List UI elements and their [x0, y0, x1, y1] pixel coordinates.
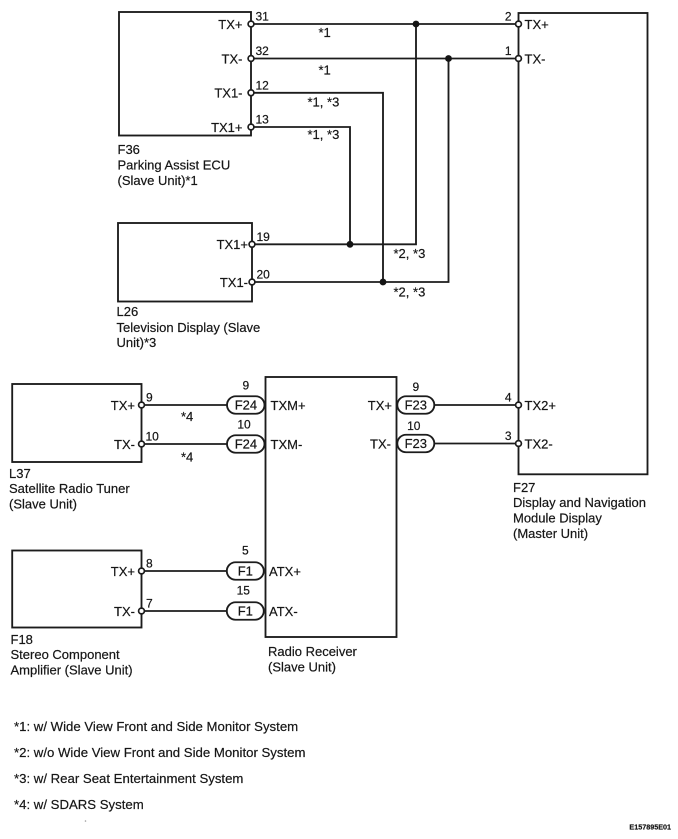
svg-text:*2, *3: *2, *3 — [394, 285, 426, 300]
svg-text:TX+: TX+ — [111, 564, 135, 579]
svg-text:8: 8 — [146, 557, 153, 571]
svg-text:TX+: TX+ — [525, 17, 549, 32]
svg-text:TX1+: TX1+ — [217, 237, 248, 252]
svg-text:Amplifier (Slave Unit): Amplifier (Slave Unit) — [11, 662, 133, 677]
svg-text:*4: w/ SDARS System: *4: w/ SDARS System — [14, 797, 144, 812]
svg-text:TX-: TX- — [222, 51, 243, 66]
svg-text:F23: F23 — [405, 398, 427, 413]
svg-text:*2: w/o Wide View Front and Si: *2: w/o Wide View Front and Side Monitor… — [14, 745, 305, 760]
svg-text:*3: w/ Rear Seat Entertainment: *3: w/ Rear Seat Entertainment System — [14, 771, 243, 786]
svg-text:*4: *4 — [181, 449, 193, 464]
svg-text:19: 19 — [257, 230, 271, 244]
svg-text:TX1-: TX1- — [214, 86, 242, 101]
svg-text:TX+: TX+ — [368, 398, 392, 413]
svg-text:10: 10 — [146, 430, 160, 444]
svg-text:TX1-: TX1- — [220, 275, 248, 290]
svg-text:ATX+: ATX+ — [269, 564, 301, 579]
svg-text:Television Display (Slave: Television Display (Slave — [117, 320, 261, 335]
svg-text:TX-: TX- — [114, 604, 135, 619]
svg-text:(Slave Unit): (Slave Unit) — [9, 496, 77, 511]
svg-text:F23: F23 — [405, 436, 427, 451]
svg-text:Unit)*3: Unit)*3 — [117, 335, 157, 350]
svg-text:*1: w/ Wide View Front and Sid: *1: w/ Wide View Front and Side Monitor … — [14, 719, 298, 734]
svg-text:*1, *3: *1, *3 — [308, 127, 340, 142]
svg-text:5: 5 — [242, 544, 249, 558]
svg-text:TX-: TX- — [370, 436, 391, 451]
svg-text:Satellite Radio Tuner: Satellite Radio Tuner — [9, 481, 130, 496]
svg-text:Radio Receiver: Radio Receiver — [268, 644, 358, 659]
svg-text:Parking Assist ECU: Parking Assist ECU — [118, 158, 231, 173]
svg-text:4: 4 — [505, 391, 512, 405]
svg-text:(Master Unit): (Master Unit) — [513, 526, 588, 541]
svg-text:12: 12 — [256, 78, 270, 92]
svg-text:*4: *4 — [181, 409, 193, 424]
svg-text:15: 15 — [237, 584, 251, 598]
svg-text:TX1+: TX1+ — [211, 120, 242, 135]
svg-text:7: 7 — [146, 597, 153, 611]
svg-text:9: 9 — [146, 391, 153, 405]
svg-text:*1: *1 — [319, 62, 331, 77]
svg-text:10: 10 — [237, 418, 251, 432]
svg-text:TXM-: TXM- — [271, 437, 303, 452]
svg-text:9: 9 — [412, 380, 419, 394]
svg-text:F18: F18 — [11, 632, 33, 647]
svg-text:9: 9 — [243, 378, 250, 392]
svg-text:TX+: TX+ — [111, 398, 135, 413]
svg-text:Display and Navigation: Display and Navigation — [513, 495, 646, 510]
svg-text:*1, *3: *1, *3 — [308, 95, 340, 110]
svg-text:*1: *1 — [319, 25, 331, 40]
svg-text:Module Display: Module Display — [513, 510, 602, 525]
svg-text:Stereo Component: Stereo Component — [11, 647, 121, 662]
svg-text:TX2+: TX2+ — [525, 398, 556, 413]
svg-text:31: 31 — [256, 10, 270, 24]
svg-text:13: 13 — [256, 113, 270, 127]
svg-text:TX+: TX+ — [218, 17, 242, 32]
svg-text:L26: L26 — [117, 304, 139, 319]
svg-text:TX2-: TX2- — [525, 436, 553, 451]
svg-text:F1: F1 — [238, 604, 253, 619]
svg-text:(Slave Unit): (Slave Unit) — [268, 659, 336, 674]
svg-text:F24: F24 — [235, 437, 257, 452]
svg-text:10: 10 — [407, 419, 421, 433]
svg-text:E157895E01: E157895E01 — [629, 823, 671, 832]
svg-text:1: 1 — [505, 44, 512, 58]
svg-text:3: 3 — [505, 429, 512, 443]
svg-text:F24: F24 — [235, 398, 257, 413]
svg-text:20: 20 — [257, 268, 271, 282]
svg-text:L37: L37 — [9, 466, 31, 481]
svg-text:F1: F1 — [238, 564, 253, 579]
svg-text:TX-: TX- — [114, 437, 135, 452]
svg-text:2: 2 — [505, 10, 512, 24]
svg-text:(Slave Unit)*1: (Slave Unit)*1 — [118, 173, 198, 188]
svg-text:*2, *3: *2, *3 — [394, 246, 426, 261]
svg-text:TX-: TX- — [525, 51, 546, 66]
svg-text:TXM+: TXM+ — [271, 398, 306, 413]
svg-text:ATX-: ATX- — [269, 604, 298, 619]
svg-text:F36: F36 — [118, 142, 140, 157]
svg-text:32: 32 — [256, 44, 270, 58]
svg-text:F27: F27 — [513, 480, 535, 495]
